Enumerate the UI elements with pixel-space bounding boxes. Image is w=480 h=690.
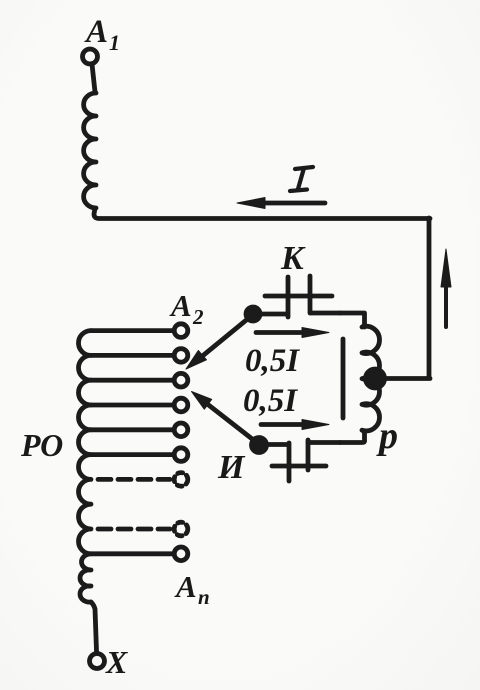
label p bbox=[376, 415, 398, 457]
svg-text:А: А bbox=[169, 288, 192, 323]
label K bbox=[280, 240, 306, 277]
svg-text:0,5I: 0,5I bbox=[245, 343, 300, 379]
tap An bbox=[91, 547, 188, 561]
label X bbox=[105, 644, 128, 680]
tap 7 (dashed) bbox=[98, 473, 188, 487]
wire bbox=[92, 64, 95, 92]
wire bbox=[340, 313, 365, 327]
svg-text:X: X bbox=[105, 644, 128, 680]
svg-text:И: И bbox=[217, 449, 246, 486]
tap 8 (dashed) bbox=[98, 522, 188, 536]
tap 2 bbox=[91, 349, 188, 363]
label An bbox=[174, 569, 210, 609]
node K (movable contact) bbox=[246, 307, 260, 321]
label 0,5I lower bbox=[243, 383, 298, 419]
svg-text:0,5I: 0,5I bbox=[243, 383, 298, 419]
svg-text:A: A bbox=[84, 14, 108, 50]
label PO bbox=[20, 427, 63, 463]
wire bbox=[340, 441, 365, 443]
svg-text:1: 1 bbox=[109, 30, 120, 55]
tap 3 (selected) bbox=[91, 373, 188, 387]
svg-text:K: K bbox=[280, 240, 306, 277]
label I (И) bbox=[217, 449, 246, 486]
arrow I bbox=[237, 198, 325, 209]
wire bbox=[94, 208, 430, 219]
terminal X bbox=[90, 654, 105, 669]
label 0,5I upper bbox=[245, 343, 300, 379]
svg-text:РО: РО bbox=[20, 427, 63, 463]
tap A2 bbox=[91, 324, 188, 338]
inductor L (series winding) bbox=[84, 93, 96, 208]
label A1 bbox=[84, 14, 120, 55]
svg-text:А: А bbox=[174, 569, 197, 604]
wire bbox=[91, 602, 97, 651]
tap 4 bbox=[91, 398, 188, 412]
label I bbox=[290, 167, 313, 191]
svg-text:2: 2 bbox=[192, 305, 204, 329]
wire bbox=[427, 218, 432, 378]
arrow from K to tap bbox=[186, 317, 250, 369]
label A2 bbox=[169, 288, 204, 329]
node I (movable contact) bbox=[252, 438, 267, 453]
node P center tap bbox=[366, 369, 385, 388]
arrow 0,5I lower bbox=[261, 420, 329, 430]
terminal A1 bbox=[83, 49, 98, 64]
reactor P winding bbox=[362, 325, 380, 441]
tap 6 bbox=[91, 448, 188, 462]
contact K bbox=[260, 276, 340, 317]
wire bbox=[384, 376, 430, 381]
arrow from I to tap bbox=[192, 392, 257, 443]
svg-text:р: р bbox=[376, 415, 398, 457]
regulating winding PO bbox=[78, 331, 91, 603]
tap 5 bbox=[91, 423, 188, 437]
contact I (И) bbox=[266, 440, 340, 481]
arrow up bbox=[441, 249, 451, 327]
svg-text:п: п bbox=[198, 585, 210, 609]
arrow 0,5I upper bbox=[256, 328, 329, 338]
reactor core bbox=[341, 339, 346, 418]
